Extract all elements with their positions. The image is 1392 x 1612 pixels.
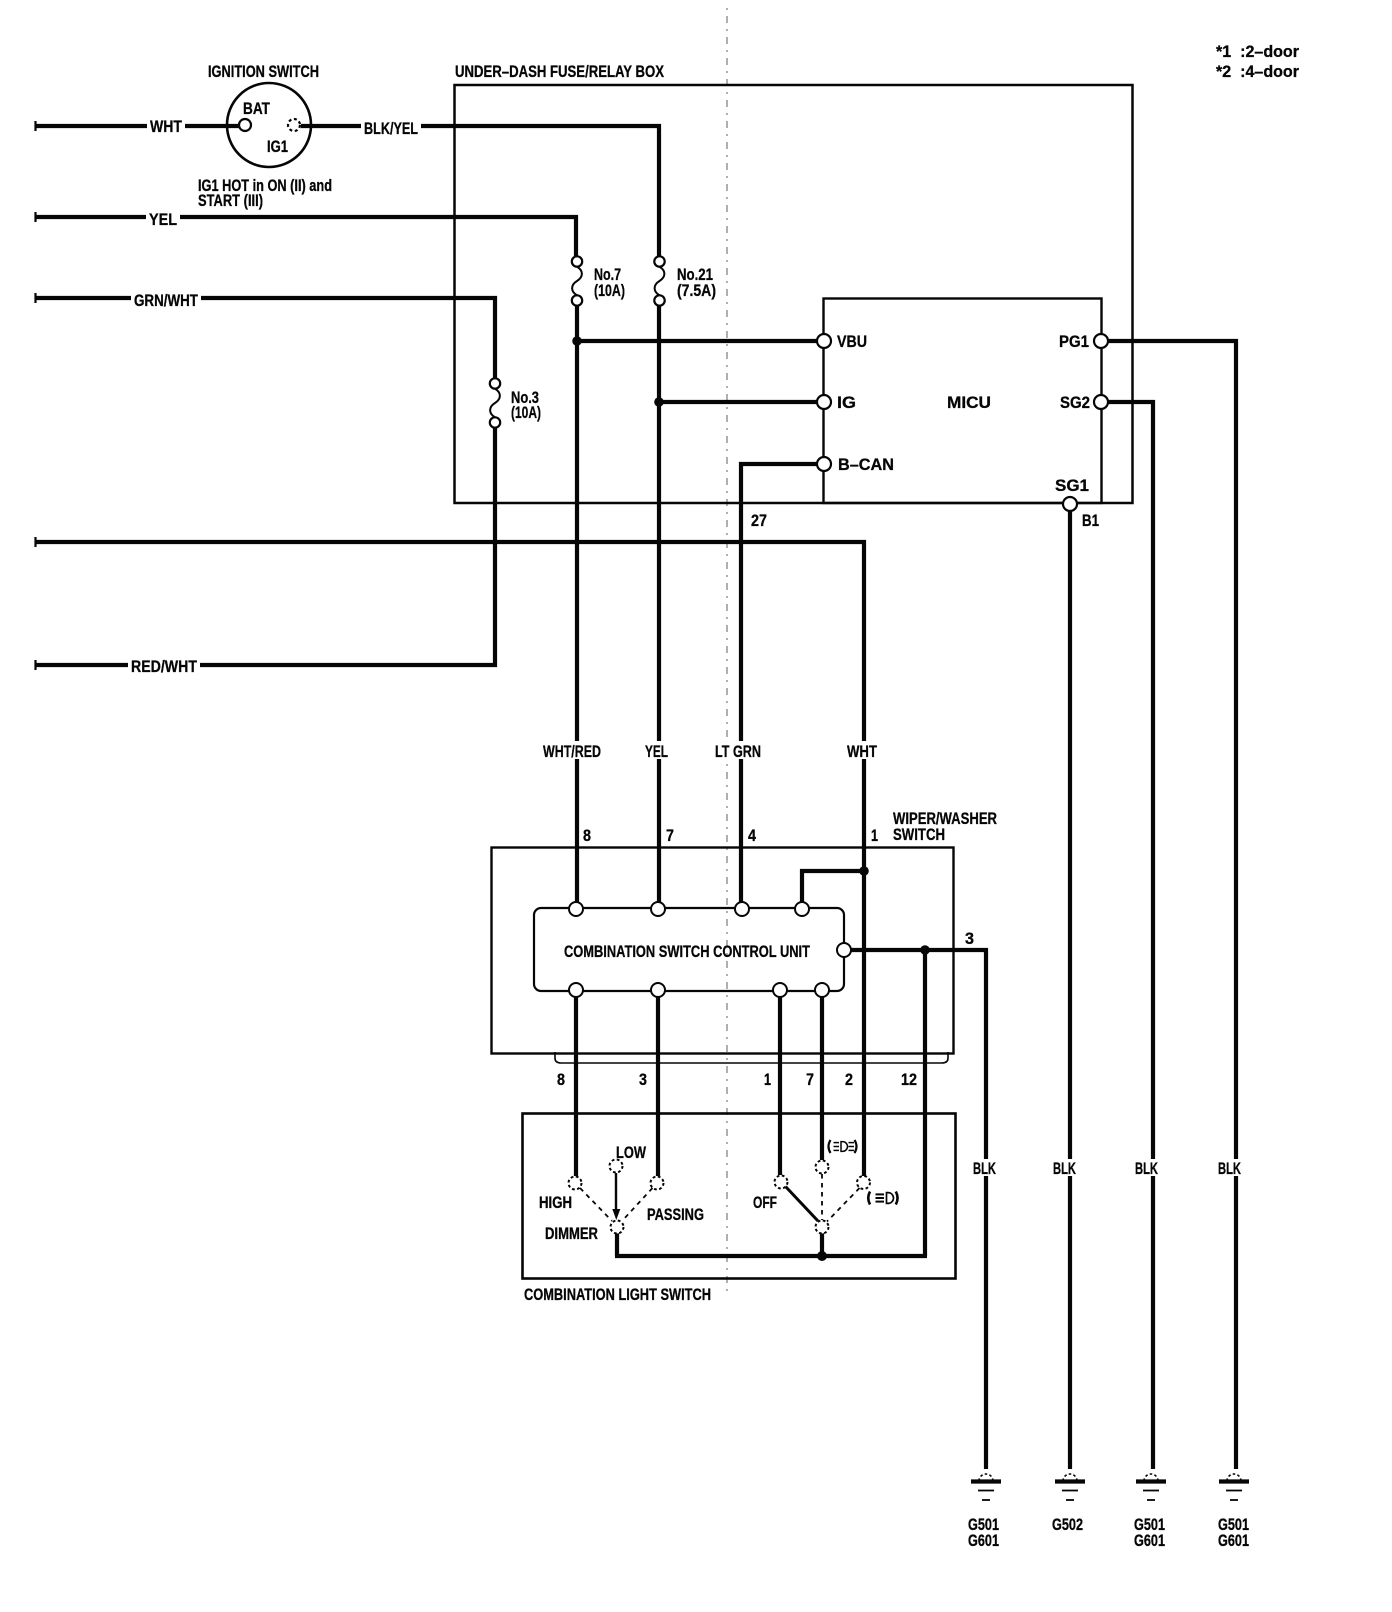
svg-text:IG: IG	[837, 393, 856, 412]
svg-text:VBU: VBU	[837, 332, 867, 351]
svg-text:LT GRN: LT GRN	[715, 742, 761, 761]
svg-text:12: 12	[901, 1070, 917, 1089]
svg-text:SWITCH: SWITCH	[893, 825, 945, 844]
svg-text:HIGH: HIGH	[539, 1193, 572, 1212]
svg-text:YEL: YEL	[645, 742, 668, 761]
svg-text:B1: B1	[1082, 511, 1099, 530]
svg-text:G601: G601	[1134, 1531, 1165, 1550]
svg-text:B–CAN: B–CAN	[838, 455, 894, 474]
svg-text:RED/WHT: RED/WHT	[131, 657, 198, 676]
svg-text:COMBINATION LIGHT SWITCH: COMBINATION LIGHT SWITCH	[524, 1285, 711, 1304]
svg-text:1: 1	[764, 1070, 771, 1089]
svg-text:1: 1	[871, 826, 878, 845]
svg-text:(7.5A): (7.5A)	[677, 281, 716, 300]
svg-text:PG1: PG1	[1059, 332, 1089, 351]
svg-text:27: 27	[751, 511, 767, 530]
svg-text:7: 7	[806, 1070, 814, 1089]
svg-text:8: 8	[557, 1070, 565, 1089]
svg-text:G502: G502	[1052, 1515, 1083, 1534]
svg-text:7: 7	[666, 826, 674, 845]
svg-text:(10A): (10A)	[594, 281, 625, 300]
svg-text:LOW: LOW	[616, 1143, 647, 1162]
svg-text:BAT: BAT	[243, 99, 270, 118]
svg-text:(10A): (10A)	[511, 403, 541, 422]
svg-text:BLK: BLK	[1218, 1159, 1241, 1178]
svg-text:3: 3	[639, 1070, 647, 1089]
svg-text:WHT: WHT	[847, 742, 877, 761]
svg-text:SG1: SG1	[1055, 476, 1089, 495]
svg-text:*1 :2–door: *1 :2–door	[1216, 42, 1299, 61]
svg-text:4: 4	[748, 826, 756, 845]
svg-text:WHT: WHT	[150, 117, 182, 136]
svg-text:*2 :4–door: *2 :4–door	[1216, 62, 1299, 81]
svg-text:MICU: MICU	[947, 393, 991, 412]
svg-text:WHT/RED: WHT/RED	[543, 742, 601, 761]
svg-text:IGNITION SWITCH: IGNITION SWITCH	[208, 62, 319, 81]
svg-text:PASSING: PASSING	[647, 1205, 704, 1224]
svg-text:START (III): START (III)	[198, 191, 263, 210]
svg-text:SG2: SG2	[1060, 393, 1090, 412]
svg-text:8: 8	[583, 826, 591, 845]
svg-text:OFF: OFF	[753, 1193, 777, 1212]
svg-text:BLK: BLK	[1135, 1159, 1158, 1178]
svg-text:BLK: BLK	[1053, 1159, 1076, 1178]
svg-text:GRN/WHT: GRN/WHT	[134, 291, 198, 310]
svg-text:G601: G601	[968, 1531, 999, 1550]
svg-text:DIMMER: DIMMER	[545, 1224, 598, 1243]
svg-text:YEL: YEL	[149, 210, 177, 229]
svg-text:3: 3	[965, 929, 974, 948]
svg-text:IG1: IG1	[267, 137, 288, 156]
svg-text:G601: G601	[1218, 1531, 1249, 1550]
svg-text:2: 2	[845, 1070, 853, 1089]
svg-text:BLK/YEL: BLK/YEL	[364, 119, 418, 138]
svg-text:BLK: BLK	[973, 1159, 996, 1178]
svg-text:COMBINATION SWITCH CONTROL UNI: COMBINATION SWITCH CONTROL UNIT	[564, 942, 810, 961]
svg-text:UNDER–DASH FUSE/RELAY BOX: UNDER–DASH FUSE/RELAY BOX	[455, 62, 665, 81]
